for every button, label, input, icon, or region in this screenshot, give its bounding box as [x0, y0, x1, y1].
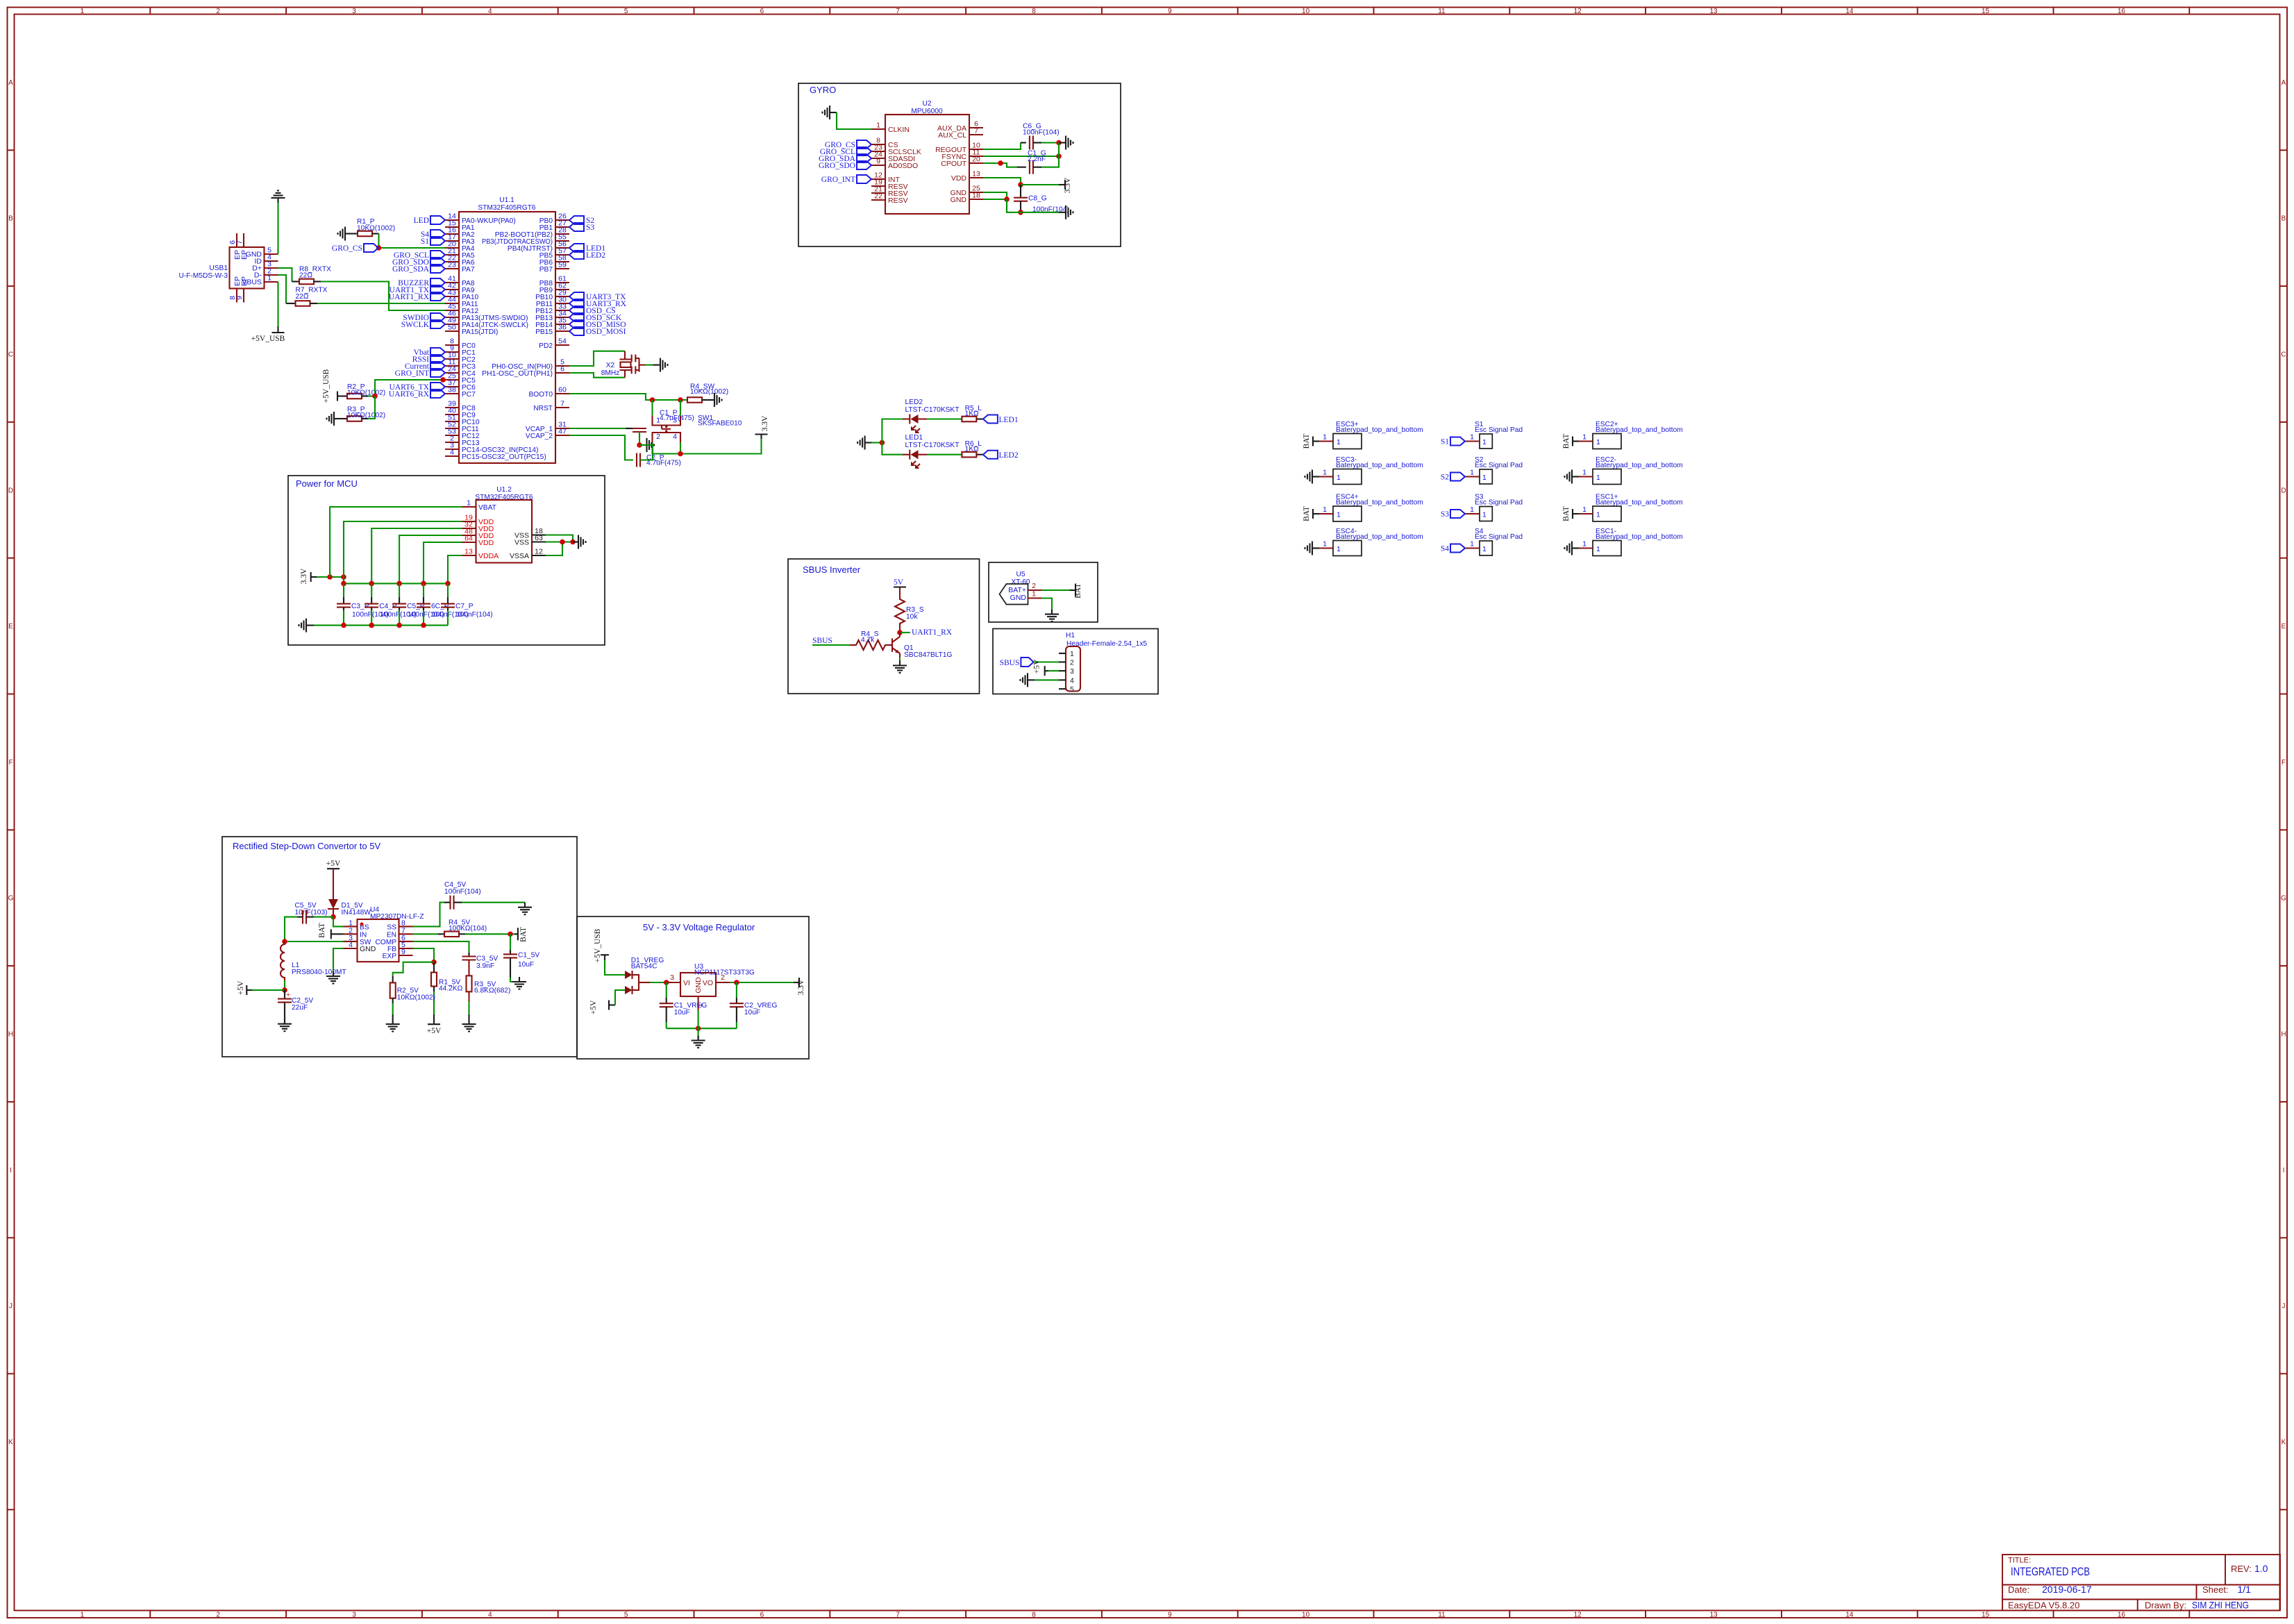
svg-text:4.7uF(475): 4.7uF(475): [660, 415, 694, 422]
ground C6_G: [1061, 136, 1073, 150]
svg-text:GRO_INT: GRO_INT: [821, 176, 855, 184]
svg-text:Baterypad_top_and_bottom: Baterypad_top_and_bottom: [1336, 499, 1423, 507]
svg-text:Esc Signal Pad: Esc Signal Pad: [1475, 533, 1523, 541]
wire 3.3V rail: [317, 576, 344, 578]
svg-text:S1: S1: [421, 237, 429, 246]
svg-text:+5V_USB: +5V_USB: [251, 335, 285, 343]
svg-text:14: 14: [1845, 8, 1854, 15]
svg-text:H: H: [2281, 1031, 2286, 1039]
svg-text:8MHz: 8MHz: [601, 369, 620, 377]
resistor R6_L 1Kohm: [962, 452, 976, 458]
title block: [2002, 1555, 2280, 1611]
svg-text:2.2nF: 2.2nF: [1028, 156, 1046, 163]
svg-text:VI: VI: [683, 979, 690, 987]
svg-text:PC15-OSC32_OUT(PC15): PC15-OSC32_OUT(PC15): [462, 453, 546, 461]
svg-text:PB7: PB7: [539, 266, 553, 274]
ground ESC1-: [1565, 542, 1577, 555]
ground VREG: [692, 1036, 705, 1048]
ground R4_SW: [710, 393, 722, 407]
net flag Current: [430, 362, 445, 370]
capacitor 6C_P 100nF: [423, 583, 424, 597]
wire R2_P to PC5: [368, 395, 375, 396]
svg-text:BAT: BAT: [519, 927, 528, 942]
switch SW1 SKSFABE010: [653, 415, 742, 442]
capacitor C5_P 100nF: [399, 583, 400, 597]
svg-text:6.8KΩ(682): 6.8KΩ(682): [474, 987, 510, 995]
svg-text:SIM ZHI HENG: SIM ZHI HENG: [2192, 1600, 2249, 1611]
svg-text:PA7: PA7: [462, 266, 475, 274]
svg-text:LED2: LED2: [586, 251, 605, 260]
svg-text:INTEGRATED PCB: INTEGRATED PCB: [2011, 1565, 2090, 1578]
svg-text:F: F: [2282, 759, 2286, 767]
svg-text:6: 6: [560, 365, 564, 374]
svg-text:10: 10: [1302, 8, 1310, 15]
svg-text:1/1: 1/1: [2238, 1584, 2252, 1595]
svg-text:+5V_USB: +5V_USB: [594, 928, 602, 962]
wire BOOT0 to SW1: [569, 394, 687, 400]
wire L1 to +5V node: [284, 980, 285, 990]
ground left of R1_P: [338, 227, 351, 241]
net flag SBUS at H1: [1021, 658, 1033, 667]
ground C4_5V: [518, 903, 532, 915]
resistor R1_P 10Kohm: [358, 231, 372, 237]
svg-text:U-F-M5DS-W-3: U-F-M5DS-W-3: [178, 272, 228, 280]
svg-text:44.2KΩ: 44.2KΩ: [439, 985, 463, 993]
net flag UART6_RX: [430, 390, 445, 398]
svg-text:MPU6000: MPU6000: [911, 108, 943, 115]
net flag GRO_SDO: [430, 258, 445, 266]
svg-text:8: 8: [1032, 8, 1036, 15]
svg-text:1: 1: [1482, 474, 1487, 482]
wire R1_5V to +5V flag: [433, 987, 435, 992]
svg-text:AD0SDO: AD0SDO: [888, 162, 918, 170]
svg-text:Esc Signal Pad: Esc Signal Pad: [1475, 462, 1523, 469]
power flag +5V_USB below USB: [277, 326, 278, 333]
BAT flag for ESC3+: [1313, 440, 1319, 442]
svg-text:1: 1: [1337, 438, 1341, 446]
svg-text:63: 63: [535, 534, 543, 542]
svg-text:D: D: [8, 487, 13, 494]
svg-text:VSSA: VSSA: [510, 552, 529, 560]
transistor Q1 SBC847BLT1G: [892, 633, 953, 659]
svg-text:Rectified Step-Down Convertor: Rectified Step-Down Convertor to 5V: [233, 841, 380, 851]
svg-text:1: 1: [267, 274, 271, 283]
svg-text:PA15(JTDI): PA15(JTDI): [462, 328, 498, 336]
battery pad ESC2- Baterypad_top_and_bottom: [1579, 456, 1683, 485]
svg-text:1: 1: [1032, 590, 1036, 598]
svg-text:1KΩ: 1KΩ: [965, 445, 979, 453]
svg-text:X2: X2: [606, 362, 615, 369]
net flag OSD_SCK: [569, 313, 584, 321]
ground ESC2-: [1565, 470, 1577, 484]
svg-text:4: 4: [1070, 676, 1074, 685]
section box U5 XT-60: [989, 562, 1098, 622]
svg-text:1: 1: [81, 8, 85, 15]
svg-text:Esc Signal Pad: Esc Signal Pad: [1475, 499, 1523, 507]
net flag GRO_SCL: [857, 147, 871, 156]
net flag OSD_MOSI: [569, 327, 584, 335]
ground VCAP: [642, 438, 655, 452]
svg-text:1: 1: [1596, 474, 1600, 482]
net flag LED1: [569, 244, 584, 252]
power flag 3.3V at SW1: [760, 435, 762, 440]
net flag RSSI: [430, 355, 445, 363]
svg-text:J: J: [2282, 1303, 2286, 1310]
svg-text:GND: GND: [951, 196, 967, 204]
MCU U1.1 STM32F405RGT6: [445, 196, 569, 463]
svg-text:PD2: PD2: [539, 342, 553, 350]
battery pad ESC1+ Baterypad_top_and_bottom: [1579, 494, 1683, 522]
svg-text:C7_P: C7_P: [455, 603, 474, 610]
svg-text:+5V: +5V: [326, 860, 341, 868]
svg-text:13: 13: [464, 548, 473, 556]
net flag GRO_SDA: [430, 265, 445, 273]
svg-text:22Ω: 22Ω: [296, 293, 309, 301]
svg-text:1: 1: [1070, 650, 1074, 658]
svg-text:100KΩ(104): 100KΩ(104): [449, 925, 487, 932]
svg-text:13: 13: [1709, 1612, 1718, 1619]
svg-text:BAT: BAT: [318, 923, 326, 938]
svg-text:4: 4: [450, 449, 454, 457]
wire C5 left down to SW node: [285, 917, 297, 941]
svg-text:60: 60: [558, 386, 567, 394]
svg-text:C8_G: C8_G: [1028, 195, 1047, 203]
svg-text:B: B: [2282, 215, 2286, 223]
capacitor C1_5V 10uF: [510, 950, 511, 954]
ground USB: [271, 191, 285, 203]
net flag GRO_INT: [857, 175, 871, 183]
svg-text:Baterypad_top_and_bottom: Baterypad_top_and_bottom: [1336, 462, 1423, 469]
wire VCAP_1 to C1_P: [569, 428, 633, 429]
svg-text:NRST: NRST: [533, 405, 553, 412]
resistor R5_L 1Kohm: [962, 417, 976, 422]
svg-text:5V - 3.3V Voltage Regulator: 5V - 3.3V Voltage Regulator: [643, 922, 755, 932]
net flag UART1_TX: [430, 285, 445, 294]
svg-text:12: 12: [535, 548, 543, 556]
svg-text:CPOUT: CPOUT: [941, 160, 966, 168]
svg-text:BAT: BAT: [1074, 583, 1082, 598]
svg-text:UART1_RX: UART1_RX: [912, 628, 953, 637]
net flag SWDIO: [430, 313, 445, 321]
svg-text:EP: EP: [240, 250, 249, 260]
wire to LED2 anode: [882, 419, 903, 443]
svg-text:C1_5V: C1_5V: [518, 952, 539, 960]
svg-text:47: 47: [558, 428, 567, 436]
section box Power for MCU: [288, 476, 605, 645]
ground Q1 emitter: [893, 661, 907, 673]
wire to LED1 anode: [882, 443, 903, 455]
wire C1_G right to vertical: [1041, 143, 1059, 167]
svg-text:EasyEDA V5.8.20: EasyEDA V5.8.20: [2008, 1600, 2079, 1611]
svg-text:K: K: [8, 1439, 13, 1446]
net flag Vbat: [430, 348, 445, 356]
wire GND pin to ground: [1041, 598, 1052, 610]
resistor R2_5V 10Kohm: [390, 982, 396, 998]
net flag LED: [430, 216, 445, 224]
net flag S2: [1450, 473, 1465, 481]
resistor R8_RXTX 22ohm: [299, 279, 314, 285]
svg-text:EN: EN: [387, 931, 396, 939]
net flag S3: [1450, 510, 1465, 518]
svg-text:BAT54C: BAT54C: [631, 963, 658, 971]
svg-text:GRO_SDA: GRO_SDA: [392, 265, 430, 274]
svg-text:E: E: [8, 623, 13, 630]
svg-text:2: 2: [1032, 582, 1036, 590]
svg-text:3: 3: [670, 973, 674, 982]
capacitor C8_G 100nF: [1020, 185, 1021, 198]
svg-text:REV:: REV:: [2231, 1564, 2252, 1574]
battery connector U5 XT-60: [1000, 571, 1042, 605]
section box GYRO: [798, 83, 1121, 246]
capacitor C4_P 100nF: [371, 583, 372, 597]
svg-text:5: 5: [624, 1612, 628, 1619]
net flag S3: [569, 223, 584, 231]
svg-text:7: 7: [896, 8, 900, 15]
wire D- to R7_RXTX: [278, 275, 287, 303]
svg-text:PRS8040-100MT: PRS8040-100MT: [292, 969, 346, 976]
BAT flag at IN pin: [330, 929, 332, 939]
wire VDD pin64: [424, 542, 462, 583]
wire SW pin to inductor node: [285, 941, 344, 942]
svg-text:G: G: [8, 895, 14, 903]
ground ESC4-: [1305, 542, 1318, 555]
svg-text:IN4148W: IN4148W: [342, 909, 371, 916]
wire GND pin 4 of U4: [333, 948, 344, 971]
dual diode D1_VREG BAT54C: [625, 957, 664, 994]
svg-text:10uF: 10uF: [674, 1009, 690, 1016]
svg-text:U5: U5: [1016, 571, 1025, 578]
svg-text:36: 36: [558, 324, 567, 332]
wire C4_5V to ground: [462, 902, 525, 903]
wire collector node UART1_RX: [897, 630, 903, 635]
net flag GRO_INT: [430, 369, 445, 377]
svg-text:STM32F405RGT6: STM32F405RGT6: [478, 204, 536, 212]
svg-text:3.3V: 3.3V: [1064, 177, 1072, 193]
svg-text:11: 11: [1438, 8, 1446, 15]
ground U5: [1045, 610, 1059, 622]
ground R3_5V: [462, 1019, 476, 1032]
svg-text:D: D: [2281, 487, 2286, 494]
svg-text:OSD_MOSI: OSD_MOSI: [586, 328, 626, 336]
section box H1: [993, 629, 1158, 694]
svg-text:LED2: LED2: [905, 399, 923, 406]
svg-text:VDD: VDD: [478, 539, 494, 547]
wire USB GND up to ground: [277, 203, 278, 254]
svg-text:Baterypad_top_and_bottom: Baterypad_top_and_bottom: [1596, 462, 1683, 469]
ground Power for MCU: [299, 619, 312, 633]
wire crystal caps to ground: [645, 365, 653, 366]
svg-text:2019-06-17: 2019-06-17: [2042, 1584, 2092, 1595]
svg-text:IN: IN: [360, 931, 367, 939]
svg-text:12: 12: [1574, 8, 1582, 15]
svg-text:BAT: BAT: [1303, 434, 1311, 449]
net flag GRO_SDO: [857, 161, 871, 169]
svg-text:CLKIN: CLKIN: [888, 126, 910, 134]
svg-text:1: 1: [1482, 438, 1487, 446]
ground left of R3_P: [327, 412, 340, 426]
crystal load capacitors: [632, 355, 645, 374]
svg-text:10KΩ(1002): 10KΩ(1002): [357, 225, 395, 233]
wire REGOUT to C6_G: [983, 143, 1021, 150]
resistor R1_5V 44.2Kohm: [433, 962, 435, 973]
section box SBUS Inverter: [788, 559, 980, 694]
ESC signal pad S2 Esc Signal Pad: [1465, 456, 1523, 484]
ground H1: [1021, 673, 1033, 687]
ESC signal pad S4 Esc Signal Pad: [1465, 528, 1523, 555]
wire GND pins: [983, 192, 1007, 199]
net flag UART1_RX: [430, 292, 445, 301]
svg-text:U2: U2: [922, 100, 931, 108]
svg-text:16: 16: [2118, 1612, 2126, 1619]
svg-text:H1: H1: [1066, 632, 1075, 639]
svg-text:GRO_INT: GRO_INT: [395, 369, 429, 378]
regulator U3 NCP1117ST33T3G: [667, 963, 755, 1010]
svg-text:10: 10: [1302, 1612, 1310, 1619]
wire junctions to SW1 pins 1,3: [651, 400, 653, 416]
net flag GRO_SCL: [430, 251, 445, 259]
net flag GRO_SDA: [857, 154, 871, 162]
svg-text:13: 13: [972, 170, 980, 178]
svg-text:VO: VO: [703, 979, 713, 987]
svg-text:I: I: [10, 1166, 12, 1174]
svg-text:C3_5V: C3_5V: [476, 955, 498, 963]
wire VBAT: [330, 507, 462, 577]
wire VSS pins to ground: [546, 535, 573, 542]
svg-text:3: 3: [352, 8, 356, 15]
wire VCAP_2 to C2_P: [569, 435, 633, 460]
wire R4_5V to BAT flag: [465, 933, 514, 935]
svg-text:7: 7: [235, 240, 244, 244]
svg-text:PC7: PC7: [462, 391, 476, 399]
svg-text:1: 1: [81, 1612, 85, 1619]
svg-text:13: 13: [1709, 8, 1718, 15]
svg-text:22Ω: 22Ω: [299, 272, 312, 280]
svg-text:54: 54: [558, 337, 567, 346]
svg-text:1: 1: [1337, 545, 1341, 553]
svg-text:VSS: VSS: [514, 539, 529, 547]
svg-text:VDD: VDD: [951, 174, 967, 183]
wire C5 right to BS node: [314, 916, 333, 918]
svg-text:B: B: [8, 215, 13, 223]
resistor R4_5V 100Kohm: [444, 932, 459, 937]
svg-text:Sheet:: Sheet:: [2202, 1584, 2229, 1595]
USB connector USB1 U-F-M5DS-W-3: [178, 233, 278, 303]
svg-text:6: 6: [760, 1612, 764, 1619]
svg-text:1: 1: [1470, 433, 1474, 442]
wire SBUS flag to pin2: [1034, 661, 1059, 662]
inductor L1 PRS8040-100MT: [281, 941, 346, 980]
wire diode common to VI: [650, 982, 667, 983]
svg-text:2: 2: [216, 1612, 220, 1619]
svg-text:1: 1: [1596, 511, 1600, 519]
svg-text:3: 3: [1070, 667, 1074, 676]
svg-text:8: 8: [1032, 1612, 1036, 1619]
svg-text:1: 1: [1582, 469, 1586, 477]
net flag OSD_MISO: [569, 320, 584, 328]
svg-text:38: 38: [448, 386, 456, 394]
capacitor C7_P 100nF: [447, 583, 449, 597]
svg-text:I: I: [2283, 1166, 2285, 1174]
wire VDD distribution rail: [344, 583, 448, 584]
svg-text:LED1: LED1: [905, 434, 923, 442]
svg-text:9: 9: [235, 296, 244, 300]
resistor R3_5V 6.8Kohm: [468, 960, 469, 976]
svg-text:100nF(104): 100nF(104): [1023, 129, 1060, 137]
svg-text:1: 1: [1323, 505, 1327, 514]
svg-text:Drawn By:: Drawn By:: [2145, 1600, 2186, 1611]
wire BAT+ to BAT flag: [1041, 589, 1069, 591]
svg-text:BAT: BAT: [1562, 506, 1571, 521]
LED LED2 LTST-C170KSKT: [903, 399, 959, 433]
svg-text:VBAT: VBAT: [478, 504, 496, 512]
net flag S4: [1450, 544, 1465, 553]
svg-text:S3: S3: [1441, 510, 1449, 519]
power flag +5V left: [246, 985, 247, 995]
svg-text:Baterypad_top_and_bottom: Baterypad_top_and_bottom: [1596, 499, 1683, 507]
svg-text:1: 1: [1596, 545, 1600, 553]
wire PH1 to crystal loop: [569, 373, 625, 378]
svg-text:LED2: LED2: [999, 451, 1019, 460]
net flag S2: [569, 216, 584, 224]
svg-text:Baterypad_top_and_bottom: Baterypad_top_and_bottom: [1596, 533, 1683, 541]
wire SS pin to C4_5V: [413, 903, 445, 927]
svg-text:+: +: [286, 991, 290, 999]
svg-text:4: 4: [673, 433, 677, 441]
svg-text:100nF(104): 100nF(104): [456, 611, 493, 619]
svg-text:1: 1: [1323, 469, 1327, 477]
svg-text:GYRO: GYRO: [810, 85, 836, 95]
svg-text:9: 9: [1168, 8, 1172, 15]
svg-text:6: 6: [760, 8, 764, 15]
svg-text:AUX_CL: AUX_CL: [938, 131, 966, 140]
battery pad ESC4- Baterypad_top_and_bottom: [1319, 528, 1423, 556]
svg-text:EP: EP: [240, 276, 249, 286]
LED LED1 LTST-C170KSKT: [903, 434, 959, 468]
capacitor C2_P 4.7uF: [636, 453, 637, 467]
svg-text:GND: GND: [360, 945, 376, 953]
capacitor C2_VREG 10uF: [736, 982, 737, 998]
wire R8_RXTX to PA12: [321, 282, 445, 311]
wire VDD pin32: [371, 528, 462, 583]
svg-text:SKSFABE010: SKSFABE010: [698, 420, 742, 428]
svg-text:2: 2: [1070, 659, 1074, 667]
section box 5V - 3.3V Voltage Regulator: [577, 916, 809, 1059]
svg-text:+5V: +5V: [237, 980, 245, 995]
svg-text:U1.2: U1.2: [496, 486, 512, 494]
svg-text:LED: LED: [414, 217, 429, 225]
battery pad ESC3+ Baterypad_top_and_bottom: [1319, 421, 1423, 449]
svg-text:1: 1: [1482, 511, 1487, 519]
svg-text:15: 15: [1982, 1612, 1990, 1619]
net flag S1: [1450, 437, 1465, 446]
svg-text:UART1_RX: UART1_RX: [389, 293, 430, 301]
BAT flag for ESC2+: [1573, 440, 1579, 442]
svg-text:10KΩ(1002): 10KΩ(1002): [690, 388, 728, 396]
svg-text:1KΩ: 1KΩ: [965, 410, 979, 417]
svg-text:16: 16: [2118, 8, 2126, 15]
svg-text:GRO_SDO: GRO_SDO: [819, 162, 855, 170]
svg-text:J: J: [9, 1303, 12, 1310]
svg-text:9: 9: [876, 158, 880, 166]
svg-text:S3: S3: [586, 224, 594, 232]
svg-text:64: 64: [464, 535, 473, 543]
svg-text:TITLE:: TITLE:: [2008, 1557, 2031, 1565]
wire ground rail VREG: [667, 1028, 737, 1029]
svg-text:23: 23: [448, 261, 456, 269]
svg-text:3: 3: [352, 1612, 356, 1619]
svg-text:SBUS Inverter: SBUS Inverter: [803, 564, 861, 575]
svg-text:50: 50: [448, 324, 456, 332]
